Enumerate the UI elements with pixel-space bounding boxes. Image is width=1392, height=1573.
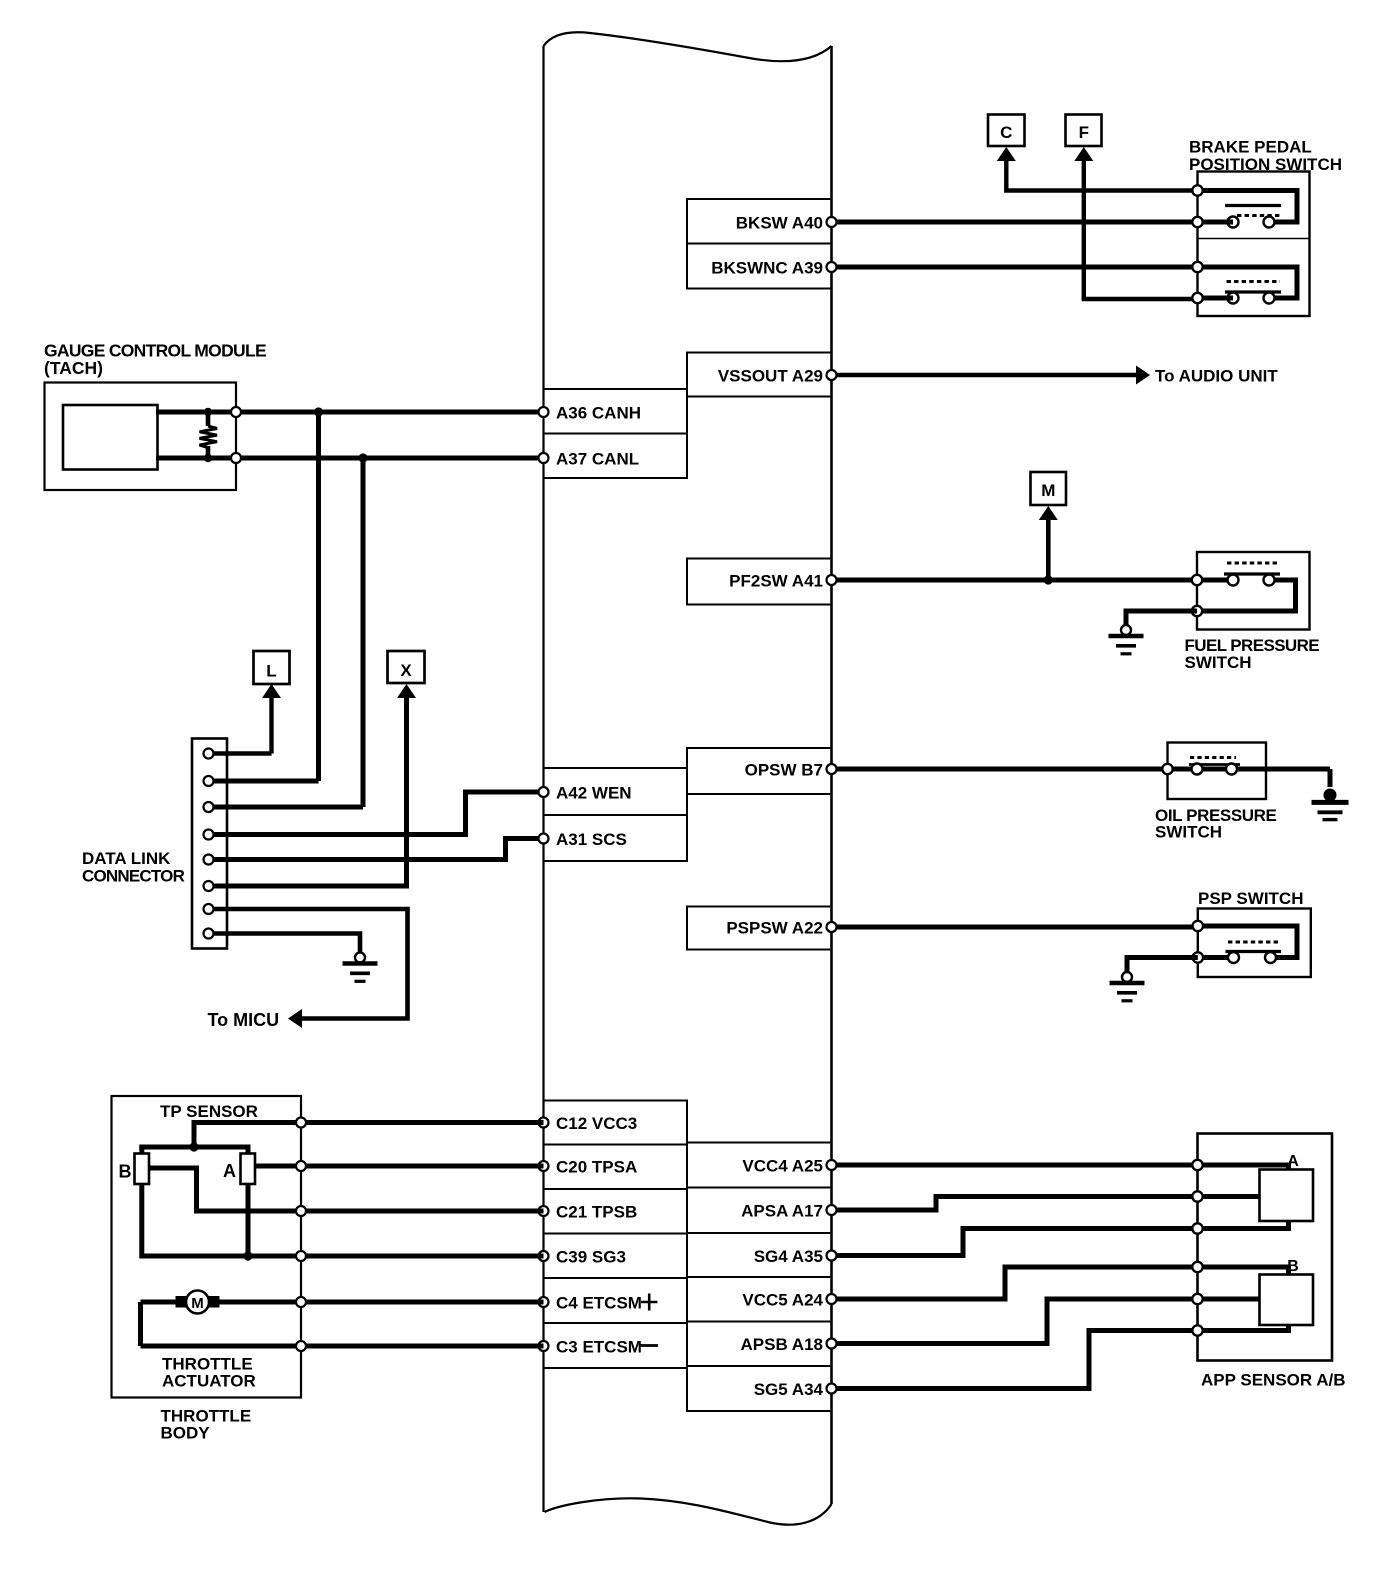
svg-text:C39 SG3: C39 SG3 — [556, 1248, 626, 1267]
svg-text:ACTUATOR: ACTUATOR — [162, 1372, 256, 1391]
svg-text:VCC5 A24: VCC5 A24 — [742, 1291, 823, 1310]
svg-text:TP SENSOR: TP SENSOR — [160, 1102, 258, 1121]
svg-text:L: L — [266, 662, 276, 681]
svg-text:A: A — [223, 1161, 236, 1181]
svg-text:C3 ETCSM: C3 ETCSM — [556, 1338, 642, 1357]
svg-text:A31 SCS: A31 SCS — [556, 830, 627, 849]
svg-text:APP SENSOR A/B: APP SENSOR A/B — [1201, 1371, 1346, 1390]
svg-text:SG5 A34: SG5 A34 — [754, 1380, 824, 1399]
svg-text:BKSWNC A39: BKSWNC A39 — [711, 259, 823, 278]
svg-text:A36 CANH: A36 CANH — [556, 404, 641, 423]
svg-text:APSA A17: APSA A17 — [741, 1202, 823, 1221]
svg-text:SWITCH: SWITCH — [1185, 653, 1252, 672]
svg-text:To MICU: To MICU — [208, 1010, 280, 1030]
svg-text:VCC4 A25: VCC4 A25 — [742, 1157, 823, 1176]
svg-text:A42 WEN: A42 WEN — [556, 784, 632, 803]
svg-text:BODY: BODY — [161, 1424, 211, 1443]
svg-text:C21 TPSB: C21 TPSB — [556, 1203, 637, 1222]
svg-text:PSP SWITCH: PSP SWITCH — [1198, 889, 1303, 908]
svg-text:C20 TPSA: C20 TPSA — [556, 1158, 637, 1177]
svg-text:CONNECTOR: CONNECTOR — [82, 867, 185, 886]
svg-text:A: A — [1287, 1153, 1299, 1170]
svg-text:PSPSW A22: PSPSW A22 — [726, 919, 823, 938]
svg-text:C12 VCC3: C12 VCC3 — [556, 1114, 637, 1133]
svg-text:OPSW B7: OPSW B7 — [745, 761, 823, 780]
svg-text:M: M — [191, 1295, 204, 1312]
svg-text:(TACH): (TACH) — [44, 358, 103, 378]
svg-text:B: B — [119, 1162, 132, 1182]
svg-text:B: B — [1287, 1258, 1299, 1275]
svg-text:C: C — [1000, 123, 1012, 142]
svg-text:APSB A18: APSB A18 — [740, 1335, 823, 1354]
svg-text:BRAKE PEDAL: BRAKE PEDAL — [1189, 138, 1312, 157]
svg-text:F: F — [1079, 123, 1089, 142]
svg-text:To AUDIO UNIT: To AUDIO UNIT — [1155, 367, 1278, 386]
svg-text:SWITCH: SWITCH — [1155, 823, 1222, 842]
svg-text:M: M — [1041, 481, 1055, 500]
svg-text:DATA LINK: DATA LINK — [82, 849, 171, 868]
svg-text:SG4 A35: SG4 A35 — [754, 1247, 823, 1266]
svg-text:C4 ETCSM: C4 ETCSM — [556, 1294, 642, 1313]
svg-text:X: X — [400, 661, 412, 680]
svg-text:A37 CANL: A37 CANL — [556, 450, 639, 469]
svg-text:VSSOUT A29: VSSOUT A29 — [718, 367, 823, 386]
svg-text:BKSW A40: BKSW A40 — [736, 214, 823, 233]
svg-text:PF2SW A41: PF2SW A41 — [729, 572, 823, 591]
